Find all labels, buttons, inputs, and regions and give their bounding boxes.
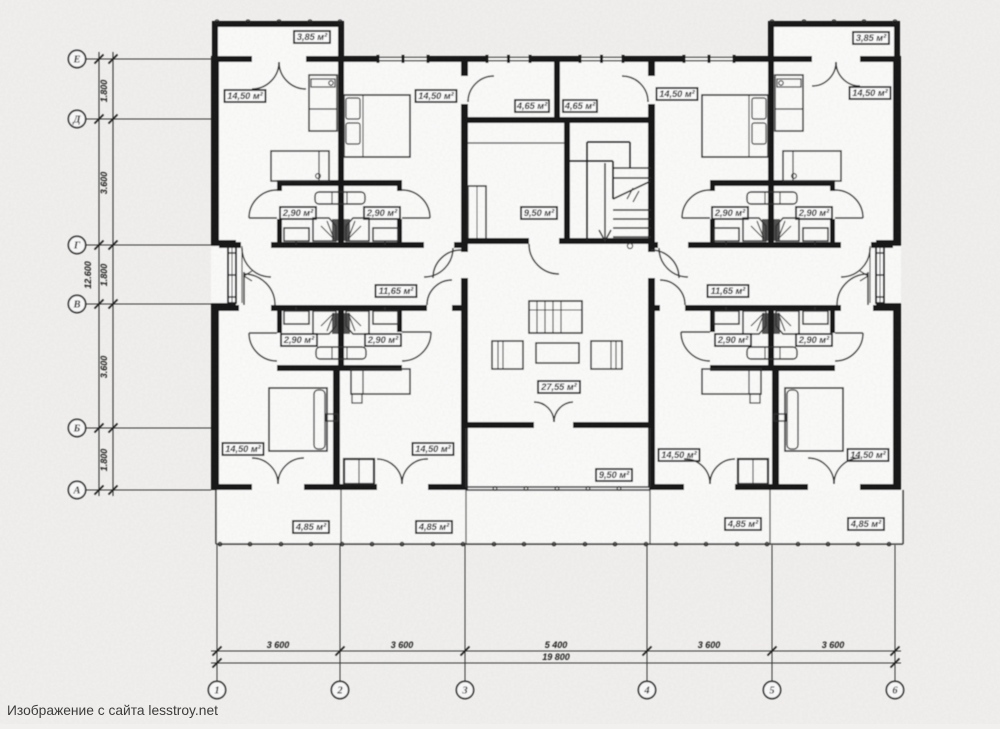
grid circle Д [68,110,85,127]
right balcony door leaf 2 [836,62,860,86]
left balcony parapet top [212,21,344,27]
top wall right of balcony door [860,56,901,62]
stair down arrow [604,163,606,238]
grid circle Е [68,50,85,67]
nightstand bottom-left room [326,414,338,421]
grid stem line 4 [646,545,648,681]
area label 14,50 lower-middle-right room (right unit) [659,449,700,461]
right balcony post 4 [862,20,866,24]
south wall left of porch [428,484,468,490]
bed bottom-right room (right unit) [785,388,843,451]
left unit partition wall lower [333,371,340,488]
area label 14,50 upper-left room [225,90,266,102]
washbasin upper-right bathroom [373,228,398,241]
right outer wall lower segment [893,309,901,490]
area label 4,65 left storeroom [515,100,549,112]
washbasin lower-left bathroom [284,311,309,324]
right balcony parapet right [894,21,900,56]
grid stem line 5 [771,545,773,681]
vent shaft hatch upper block (right unit) [762,219,768,241]
right unit lower sanitary block bottom wall [710,365,835,371]
right unit upper sanitary block top wall [710,180,835,186]
porch post 3 [555,487,559,491]
centre-right wall middle segment [648,104,655,252]
grid stem line 2 [339,545,341,681]
right wall window jog bottom [876,303,901,309]
shower upper-left bathroom [313,218,336,241]
right balcony parapet left [768,21,774,62]
area label 2,90 upper-left bathroom (right unit) [712,207,748,219]
porch post 4 [586,487,590,491]
south wall left segment [211,484,252,490]
wardrobe door mark (right unit) [750,394,760,403]
lower-right bathroom door arc [402,332,431,361]
tick bottom upper 5 [768,647,777,656]
right unit upper sanitary block right jamb [830,219,835,244]
left dimension line outer [98,52,100,496]
tick at left dim outer В [95,300,104,309]
stair break line diagonal [613,181,651,199]
veranda left edge [215,490,217,544]
area label 2,90 upper-right bathroom (right unit) [796,207,832,219]
area label 2,90 lower-right bathroom (right unit) [796,334,832,346]
porch front edge lower [466,489,650,491]
grid circle 1 [208,681,225,698]
centre-right wall above storeroom door [648,62,655,76]
right window sill line [869,246,871,303]
tick at left dim outer Г [95,241,104,250]
top wall left of balcony door [211,56,252,62]
tick at left dim inner В [109,300,118,309]
shower lower-left bathroom [313,311,336,334]
tick at left dim inner Б [109,424,118,433]
area label 27,55 living room [538,381,580,393]
sofa top-right room (right unit) [783,151,841,181]
shower upper-right bathroom (right unit) [776,218,799,241]
left unit lower sanitary block bottom wall [277,365,402,371]
bottom closet between left rooms [344,459,374,484]
hall and stair divider wall [564,123,570,242]
shower upper-right bathroom [346,218,369,241]
left balcony door leaf 1 [252,62,279,89]
area label 3,85 left balcony [294,31,330,43]
right corridor bottom wall left segment [649,305,660,311]
living room south wall left [461,422,534,428]
right unit upper sanitary block left jamb [710,219,715,244]
sideboard living room [529,301,582,333]
left dimension line inner [112,52,114,496]
left unit lower sanitary block right jamb [397,311,402,332]
divider wall between storerooms [554,62,560,123]
lower-left bathroom door leaf [249,332,277,334]
door arc to upper-left bedroom (right unit) [659,248,688,277]
tick at left dim outer Д [95,115,104,124]
living south door leaf 2 [554,402,573,422]
left unit lower sanitary block left jamb [277,311,282,333]
right corridor top wall middle segment [688,242,841,248]
south wall below left closet [304,484,377,490]
wardrobe door mark [352,394,362,403]
area label 11,65 right corridor room [708,285,749,297]
area label 9,50 porch [596,469,632,481]
grid circle А [68,481,85,498]
area label 2,90 lower-right bathroom [365,334,401,346]
top wall right unit left of window [655,56,684,62]
wardrobe knob [329,81,333,85]
grid circle В [68,295,85,312]
veranda fill [216,490,903,544]
right block top wall left stub [710,186,715,191]
shelf upper sanitary block [315,192,365,204]
right unit partition wall lower [772,371,779,488]
top wall centre left of window [461,56,487,62]
door arc upper-right bathroom [402,190,430,218]
shelf upper sanitary block (right unit) [747,192,797,204]
window left unit bedroom [378,56,428,58]
tick at left dim outer Б [95,424,104,433]
hall bottom wall right of door [559,238,655,244]
top wall centre between windows [530,56,580,62]
washbasin upper-left bathroom (right unit) [714,228,739,241]
hall coat rack line [468,142,564,144]
right block top wall right stub [830,186,835,191]
left balcony post 2 [246,20,250,24]
lower-left bathroom door arc (right unit) [681,332,710,361]
svg-text:Изображение с сайта lesstroy.n: Изображение с сайта lesstroy.net [7,703,218,718]
grid axis line Д [86,118,211,120]
south door right unit leaf 3 [710,459,735,484]
grid axis line Г [86,244,211,246]
pillow 2 top bedroom (right unit) [752,123,766,144]
left block top wall right stub [397,186,402,191]
pillow 2 top bedroom [346,123,360,144]
wardrobe inner shelf (right unit) [777,79,801,87]
centre-right wall lower segment [648,278,655,487]
left balcony parapet left [212,21,218,56]
hall closet [468,186,486,242]
corridor bottom door right arc [427,280,452,305]
upper-right bathroom door leaf [402,217,430,219]
left balcony post 5 [338,20,342,24]
door arc hall to living room [529,244,559,274]
right outer wall upper segment [893,59,901,240]
grid circle 3 [456,681,473,698]
bed top bedroom [344,95,410,157]
south door right unit leaf 4 [684,459,710,484]
south door left unit leaf 1 [252,458,278,484]
left balcony post 1 [215,20,219,24]
area label 14,50 upper-right room (right unit) [850,87,891,99]
left balcony post 4 [308,20,312,24]
door arc to upper-right room (right unit) [841,248,870,277]
area label 3,85 right balcony [853,32,889,44]
area label 14,50 right unit bedroom [657,88,698,100]
veranda posts [218,542,221,545]
upper-right bathroom door leaf (right unit) [835,217,863,219]
tick bottom upper 2 [336,647,345,656]
left outer wall upper segment [211,59,219,240]
grid axis line Е [86,58,211,60]
right unit lower sanitary block right jamb [830,311,835,333]
left unit lower sanitary block divider [338,311,344,365]
right balcony post 3 [832,20,836,24]
right corridor bottom wall right segment [873,305,893,311]
area label 14,50 lower-right room (right unit) [848,449,889,461]
stair treads lower flight [613,209,651,211]
centre-left wall lower segment [461,278,468,487]
porch post 1 [493,487,497,491]
bottom closet between right rooms [738,459,768,484]
nightstand bottom-right room (right unit) [774,414,786,421]
grid axis line В [86,303,211,305]
left wall window frame [228,246,236,303]
corridor top wall middle segment [271,242,424,248]
washbasin upper-left bathroom [284,228,309,241]
tick bottom upper 6 [891,647,900,656]
sofa corner mark (right unit) [792,174,797,179]
grid axis line Б [86,427,211,429]
stair upper landing outline [587,141,630,143]
shower lower-right bathroom (right unit) [776,311,799,334]
corridor bottom door left arc (right unit) [660,280,685,305]
washbasin lower-right bathroom (right unit) [803,311,828,324]
area label 4,85 left veranda inner [416,521,452,533]
right wall window frame [876,246,884,303]
pillow bottom-left room [314,390,325,449]
tick bottom upper 1 [213,647,222,656]
top wall right of balcony door [306,56,344,62]
grid axis line А [86,489,211,491]
right window crossbar 3 [876,296,884,298]
right balcony post 5 [893,20,897,24]
area label 4,65 right storeroom [563,100,597,112]
area label 11,65 left corridor room [376,285,417,297]
corridor bottom door left arc [244,274,275,305]
veranda divider right [769,490,771,544]
stair treads upper flight [613,167,651,169]
grid circle Б [68,419,85,436]
south door right unit leaf 1 [834,458,860,484]
south wall right segment [860,484,901,490]
tick at left dim inner Е [109,55,118,64]
left window crossbar 2 [228,274,236,276]
sofa top-left room [271,151,329,181]
right wall window jog top [876,240,901,246]
grid stem line 1 [216,545,218,681]
area label 9,50 entrance hall [521,207,557,219]
left wall window jog top [211,240,236,246]
right corridor bottom wall middle segment [685,305,841,311]
south door left unit leaf 2 [278,458,304,484]
washbasin lower-left bathroom (right unit) [714,311,739,324]
corridor bottom door right leaf (right unit) [867,272,869,305]
door arc to upper-right bedroom [424,248,453,277]
grid stem line 3 [464,545,466,681]
hall bottom wall left of door [461,238,529,244]
door arc living to left unit [433,250,461,278]
grid circle 4 [638,681,655,698]
porch right edge [649,428,651,487]
area label 14,50 left unit bedroom [416,90,457,102]
right window crossbar 2 [876,274,884,276]
tick bottom lower 1 [213,659,222,668]
right unit lower sanitary block divider [768,311,774,365]
corridor bottom wall left segment [219,305,239,311]
washbasin upper-right bathroom (right unit) [803,228,828,241]
right balcony fill [768,21,900,56]
area label 14,50 lower-left room [223,443,264,455]
wardrobe knob (right unit) [779,81,783,85]
bed bottom-left room [269,388,327,451]
left window crossbar 3 [228,296,236,298]
veranda divider porch-left [465,490,467,544]
door arc to upper-left room [242,248,271,277]
tick at left dim inner Г [109,241,118,250]
left balcony fill [212,21,344,56]
corridor bottom door right arc (right unit) [837,274,868,305]
bottom dimension line lower [211,662,901,664]
lower-right bathroom door arc (right unit) [835,333,863,361]
window centre right storeroom [580,56,623,58]
bottom dimension line upper [211,650,901,652]
left balcony post 3 [277,20,281,24]
armchair right living room [591,341,622,369]
pillow 1 top bedroom (right unit) [752,98,766,119]
tick at left dim inner А [109,486,118,495]
right balcony post 2 [802,20,806,24]
corridor bottom wall middle segment [271,305,427,311]
lower-right bathroom door leaf (right unit) [835,332,863,334]
shower lower-left bathroom (right unit) [743,311,766,334]
veranda divider porch-right [649,490,651,544]
top wall centre right of window [623,56,655,62]
door arc upper-left bathroom (right unit) [682,190,710,218]
veranda front edge [216,543,903,545]
area label 14,50 lower-middle-left room [413,443,454,455]
right corridor top wall left stub [649,242,658,248]
left window opening marker [244,271,252,281]
grid stem line 6 [894,545,896,681]
grid circle 5 [763,681,780,698]
shower lower-right bathroom [346,311,369,334]
door arc left storeroom [468,76,494,102]
south door right unit leaf 2 [808,458,834,484]
living room south wall right [573,422,655,428]
south wall right of porch [649,484,684,490]
stair newel mark [627,243,632,248]
lower-left bathroom door leaf (right unit) [681,331,710,333]
grid circle Г [68,236,85,253]
living south door leaf 1 [534,402,554,422]
entrance hall top wall [461,117,655,123]
centre-left wall middle segment [461,104,468,252]
tick bottom upper 3 [461,647,470,656]
left unit upper sanitary block left jamb [277,219,282,244]
right unit lower sanitary block left jamb [710,311,715,332]
pillow bottom-right room (right unit) [787,390,798,449]
armchair left living room [492,341,523,369]
tick bottom upper 4 [643,647,652,656]
left unit upper sanitary block top wall [277,180,402,186]
upper-left bathroom door leaf (right unit) [682,217,710,219]
porch post 5 [617,487,621,491]
pillow 1 top bedroom [346,98,360,119]
vent shaft hatch upper block [332,219,338,241]
tick at left dim outer А [95,486,104,495]
porch left edge [465,428,467,487]
left window crossbar 1 [228,252,236,254]
shower upper-left bathroom (right unit) [743,218,766,241]
right balcony parapet top [768,21,900,27]
area label 2,90 lower-left bathroom (right unit) [715,334,751,346]
porch post 2 [524,487,528,491]
door arc upper-left bathroom [249,190,277,218]
vent shaft hatch lower block [332,313,338,334]
area label 4,85 right veranda inner [725,518,761,530]
south door left unit leaf 4 [402,459,428,484]
left unit upper sanitary block right jamb [397,219,402,244]
lower-left bathroom door arc [249,333,277,361]
area label 4,85 left veranda outer [293,521,329,533]
right balcony door leaf 1 [812,62,836,86]
top wall left unit bedroom right of window [428,56,468,62]
veranda divider left [340,490,342,544]
area label 2,90 lower-left bathroom [281,334,317,346]
corridor top wall right stub [454,242,463,248]
right unit partition wall upper (rooms divider) [768,62,774,242]
right window crossbar 1 [876,252,884,254]
left unit partition wall upper (rooms divider) [338,62,344,242]
coffee table living room [536,343,579,363]
left balcony parapet right [338,21,344,62]
washbasin lower-right bathroom [373,311,398,324]
left block top wall left stub [277,186,282,191]
stair half-landing edge [570,160,613,162]
wardrobe top-left room [309,75,337,131]
area label 2,90 upper-left bathroom [280,207,316,219]
top wall right unit right of window [734,56,769,62]
building interior fill [211,56,901,490]
top wall left unit bedroom left of window [344,56,378,62]
right window opening marker [860,271,868,281]
lower-right bathroom door leaf [402,331,431,333]
door arc living to right unit [651,250,679,278]
veranda right edge [902,490,904,544]
shelf lower sanitary block [316,347,366,359]
left outer wall lower segment [211,309,219,490]
corridor top wall left segment [219,242,241,248]
south door left unit leaf 3 [377,459,402,484]
grid circle 2 [331,681,348,698]
grid circle 6 [886,681,903,698]
corridor bottom door left leaf [243,272,245,305]
centre-left wall above storeroom door [461,62,468,76]
window centre left storeroom [487,56,530,58]
tick bottom lower 6 [891,659,900,668]
corridor bottom wall right segment [452,305,463,311]
vent shaft hatch lower block (right unit) [762,313,768,334]
left wall window jog bottom [211,303,236,309]
porch front edge upper [466,486,650,488]
right balcony post 1 [770,20,774,24]
window right unit bedroom [684,56,734,58]
sofa corner mark [316,174,321,179]
top wall right unit left of balcony door [769,56,812,62]
area label 2,90 upper-right bathroom [364,207,400,219]
door arc right storeroom [622,76,648,102]
wardrobe bottom-left room (right unit) [702,369,761,394]
area label 4,85 right veranda outer [848,518,884,530]
